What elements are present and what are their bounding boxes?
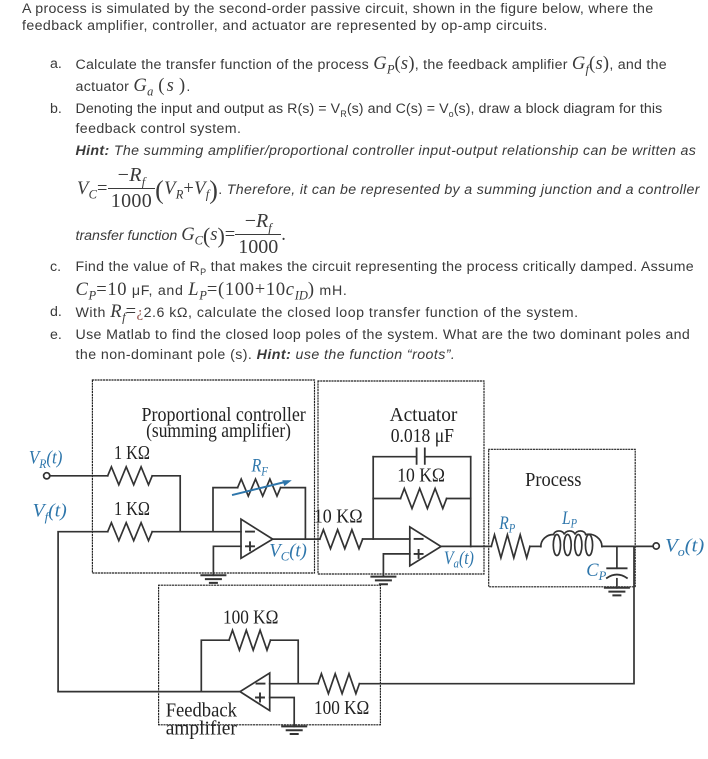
resistor 100 KOhm (feedback input) [318, 674, 359, 694]
wire U1 feedback loop left vertical [213, 488, 238, 532]
wire U3 output to Vf line [58, 691, 240, 693]
wire to capacitor [373, 456, 471, 458]
item c [50, 258, 61, 276]
node VR(t) input terminal [44, 473, 50, 479]
wire U3 non-inverting input to ground [270, 698, 295, 727]
wire 100K to U3 inverting input [270, 683, 318, 685]
wire U1 non-inverting input to ground [213, 546, 241, 575]
wire CP to ground [616, 579, 618, 588]
svg-text:1 KΩ: 1 KΩ [114, 442, 150, 464]
wire U1 output to 10K resistor [273, 538, 320, 540]
wire R1 to junction [152, 476, 180, 532]
op-amp U2 (actuator) [410, 527, 441, 566]
svg-text:RP: RP [498, 513, 515, 536]
svg-text:100 KΩ: 100 KΩ [223, 606, 278, 628]
svg-text:CP: CP [586, 560, 606, 583]
svg-text:(summing amplifier): (summing amplifier) [146, 420, 291, 442]
wire U2 output to RP [441, 545, 491, 547]
wire actuator feedback left vertical [372, 457, 374, 539]
wire RP to LP [530, 545, 541, 547]
wire actuator feedback right vertical [470, 457, 472, 547]
svg-text:10 KΩ: 10 KΩ [314, 506, 363, 528]
wire Vf vertical from feedback amp output [58, 532, 108, 692]
wire VR to R1 [50, 475, 108, 477]
wire resistor branch left [373, 498, 400, 500]
dashed box: feedback amplifier [159, 585, 381, 725]
capacitor CP [607, 567, 626, 569]
svg-text:VR(t): VR(t) [29, 448, 63, 472]
wire node to capacitor CP [616, 546, 618, 568]
formula line 1 [77, 167, 700, 214]
wire feedback loop left vertical [201, 640, 229, 691]
resistor 100 KOhm (feedback loop) [229, 630, 271, 650]
inductor LP [541, 534, 554, 546]
svg-text:amplifier: amplifier [166, 718, 238, 740]
svg-text:0.018 μF: 0.018 μF [391, 425, 454, 447]
item b [50, 100, 62, 118]
dashed box: proportional controller [92, 380, 314, 573]
item a [50, 55, 62, 73]
wire RF to output node [281, 488, 306, 539]
wire resistor branch right [447, 498, 471, 500]
wire R2 to op-amp U1 inverting input [152, 531, 241, 533]
paragraph line 2 [22, 17, 548, 35]
svg-text:Va(t): Va(t) [444, 548, 474, 571]
svg-text:VC(t): VC(t) [269, 541, 307, 564]
resistor 10 KOhm (actuator feedback) [401, 489, 447, 509]
item d [50, 303, 62, 321]
svg-text:RF: RF [251, 456, 269, 479]
wire U2 non-inverting input to ground [383, 554, 409, 577]
ground (actuator) [371, 577, 395, 585]
resistor R1 1 KOhm [108, 467, 153, 485]
svg-text:Process: Process [525, 469, 581, 491]
ground (controller) [201, 575, 225, 583]
item e [50, 326, 62, 344]
svg-text:10 KΩ: 10 KΩ [397, 465, 445, 487]
resistor 10 KOhm series [320, 530, 363, 549]
ground (process) [605, 588, 629, 596]
wire LP to output terminal [602, 545, 653, 547]
svg-text:Vo(t): Vo(t) [665, 536, 704, 560]
dashed box: process [489, 449, 636, 587]
op-amp U3 (feedback amplifier, points left) [240, 673, 270, 711]
dashed box: actuator [318, 381, 484, 574]
op-amp U1 (controller) [241, 519, 273, 558]
svg-text:Actuator: Actuator [390, 404, 458, 426]
arrow across RF [233, 482, 287, 495]
capacitor 0.018 uF [417, 448, 425, 464]
wire 10K to U2 inverting input [363, 538, 410, 540]
resistor R2 1 KOhm [108, 523, 153, 541]
resistor RF (variable) [238, 479, 281, 496]
ground (feedback amplifier) [282, 726, 306, 734]
wire output node down to feedback path [359, 546, 634, 683]
formula line 2 [76, 213, 286, 260]
svg-text:1 KΩ: 1 KΩ [114, 498, 150, 520]
paragraph line 1 [22, 0, 653, 18]
node Vo(t) output terminal [653, 543, 659, 549]
resistor RP [491, 535, 530, 558]
wire U3 feedback loop right vertical [271, 640, 299, 684]
svg-text:LP: LP [561, 508, 577, 531]
svg-text:Vf(t): Vf(t) [33, 501, 67, 525]
svg-text:100 KΩ: 100 KΩ [314, 697, 369, 719]
